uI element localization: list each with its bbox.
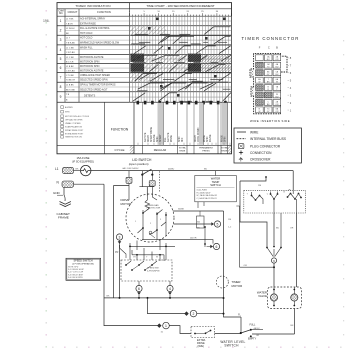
diamond connector before 1 (158, 324, 162, 328)
svg-text:WASH: WASH (194, 135, 197, 142)
circled terminal 5 (214, 221, 220, 227)
timer internal buss dotted box (244, 190, 305, 213)
table row lines (57, 25, 232, 27)
svg-text:2: 2 (60, 29, 62, 33)
connector arrow into 6 (207, 245, 214, 247)
drive motor overload zigzag (145, 196, 150, 210)
wire feed drop into timer x=293 (292, 171, 294, 191)
timer connector shell outline (250, 54, 287, 114)
svg-text:SPEED SWITCH: SPEED SWITCH (73, 260, 92, 263)
drive motor bottom leads (137, 239, 160, 250)
table header TIMER INFORMATION / TIME CHART (57, 8, 232, 10)
svg-text:WASH FILL: WASH FILL (80, 46, 93, 49)
svg-text:(open position): (open position) (129, 162, 149, 166)
svg-text:SPIN & TIMER MOTOR BYPASS: SPIN & TIMER MOTOR BYPASS (80, 84, 116, 87)
timer motor dashed circle (216, 276, 228, 288)
svg-text:mode-P/AGI: mode-P/AGI (197, 188, 208, 191)
svg-text:EXTRA RINSE PORT: EXTRA RINSE PORT (65, 132, 84, 135)
wire from 3 diagonal jog (120, 245, 127, 258)
legend crossover symbol (239, 157, 243, 161)
svg-text:C T4 BK: C T4 BK (66, 75, 74, 77)
legend wire symbol (237, 131, 246, 133)
plug connector L1 (63, 167, 74, 173)
wire motor right horizontal 3A (173, 210, 224, 212)
circled terminal 2 (190, 310, 197, 317)
svg-text:(IF SO EQUIPPED): (IF SO EQUIPPED) (72, 160, 94, 163)
svg-text:L1 W BU: L1 W BU (66, 28, 75, 30)
svg-text:C B T-BU: C B T-BU (66, 52, 75, 54)
wire from 1 to extra rinse switch (169, 326, 191, 334)
function section dividers (104, 102, 106, 154)
speed switch info box (66, 258, 101, 280)
chart dark cam blocks (130, 54, 144, 62)
timer motor contact cluster (266, 247, 268, 249)
table header row cam no circuit function (57, 15, 232, 17)
wire L1 to fuse (74, 170, 81, 172)
timer connector pin cells (256, 55, 264, 61)
wire connector to water valve (273, 263, 275, 287)
svg-text:SPIN: SPIN (225, 136, 227, 142)
svg-text:HOT COLD: HOT COLD (80, 37, 93, 40)
svg-text:CYCLE: CYCLE (114, 148, 124, 152)
circled terminal 6 (213, 243, 219, 249)
svg-text:REGULAR: REGULAR (154, 148, 167, 152)
svg-text:SPIN: SPIN (65, 112, 70, 114)
svg-text:WATER: WATER (211, 176, 220, 180)
connector arrow into 5 (211, 223, 214, 225)
svg-text:RINSE: RINSE (179, 150, 186, 152)
svg-text:PLUG CONNECTOR: PLUG CONNECTOR (250, 145, 281, 149)
svg-text:CONNECTION: CONNECTION (250, 151, 272, 155)
ground symbol cabinet frame (64, 188, 65, 202)
svg-text:W: W (258, 82, 260, 84)
connector arrow below 3 (118, 240, 120, 245)
wire N to left vertical (74, 183, 104, 185)
svg-text:BU: BU (276, 228, 279, 230)
connector arrow below 4 (169, 292, 171, 296)
svg-text:TIMER CONNECTOR: TIMER CONNECTOR (242, 36, 300, 41)
svg-text:C B T-BU: C B T-BU (66, 70, 75, 72)
svg-text:GND: GND (53, 191, 61, 195)
svg-text:196.: 196. (43, 19, 50, 23)
cycle row cells (133, 145, 135, 154)
svg-text:C: C (268, 46, 270, 50)
svg-text:WIRE INSERTION SIDE: WIRE INSERTION SIDE (250, 119, 290, 123)
svg-text:(2 POSN OPERATION): (2 POSN OPERATION) (72, 262, 94, 265)
svg-text:SPRAY RINSE PORT: SPRAY RINSE PORT (65, 129, 84, 132)
svg-text:TIME CHART - 180 SECONDS PER I: TIME CHART - 180 SECONDS PER INCREMENT (146, 4, 214, 8)
svg-text:EMPTY: EMPTY (248, 337, 257, 340)
svg-text:OR: OR (256, 335, 260, 337)
svg-text:W | 2A-BU 6A-W 8A-OR: W | 2A-BU 6A-W 8A-OR (197, 194, 218, 197)
wire start relay vertical (204, 227, 206, 247)
chart emphasized row boundary bars (131, 34, 231, 36)
svg-text:4A BU: 4A BU (168, 167, 175, 170)
svg-text:4: 4 (169, 287, 171, 291)
wire lid switch left drop with connector 4A (128, 171, 130, 177)
legend box (234, 128, 301, 163)
svg-text:BU: BU (204, 168, 207, 170)
svg-text:W: W (276, 82, 278, 84)
svg-text:2-POS/SPIN: 2-POS/SPIN (147, 271, 160, 273)
wire motor aux horizontal lower (130, 245, 175, 247)
svg-text:MOTOR/ON SPIN: MOTOR/ON SPIN (80, 65, 100, 68)
svg-text:PRESS: PRESS (202, 151, 210, 153)
svg-text:HOT COLD: HOT COLD (80, 32, 93, 35)
wire timer motor vertical x=223.5 (224, 211, 242, 317)
water level switch pivot (240, 332, 242, 334)
function section full-height dividers (133, 102, 135, 145)
chart stray cam marks (156, 18, 159, 21)
svg-text:FRAME: FRAME (58, 215, 69, 219)
svg-text:W: W (258, 111, 260, 113)
svg-text:DETENTS: DETENTS (84, 95, 96, 98)
svg-text:L1 T: L1 T (66, 38, 71, 40)
plug connector N (62, 181, 74, 187)
svg-text:WASH: WASH (147, 135, 150, 142)
svg-text:WARM/COLD WASH SPEED SLOW: WARM/COLD WASH SPEED SLOW (80, 41, 120, 44)
legend connection symbol (239, 150, 243, 154)
timer connector left tab hatch (250, 69, 253, 76)
wire full line to valve vertical (251, 329, 263, 331)
fuse F1 (81, 165, 91, 175)
wire corner OR branch (236, 206, 274, 267)
extra rinse switch dashed box (191, 327, 215, 338)
svg-text:CROSSOVER: CROSSOVER (250, 157, 271, 161)
svg-text:SPIN: SPIN (157, 136, 159, 142)
chart time scale ticks (129, 13, 131, 16)
drive motor internal wires (152, 186, 157, 200)
chart diagonal cam transition strokes (135, 33, 148, 35)
water valve dashed box (268, 287, 302, 309)
detent black ticks (137, 101, 140, 105)
wire main feed L1 y=170.6 (91, 170, 293, 172)
svg-text:MOTOR: MOTOR (121, 202, 132, 206)
svg-text:1M: 1M (228, 219, 231, 221)
water valve solenoid left (270, 294, 277, 301)
stub wire to water temp switch (215, 171, 217, 176)
svg-text:15A FUSE: 15A FUSE (76, 156, 89, 160)
svg-text:MOTOR RUN- ALL CYCLES: MOTOR RUN- ALL CYCLES (65, 115, 90, 118)
table column dividers (64, 9, 66, 103)
svg-text:RINSE: RINSE (171, 135, 173, 142)
svg-text:4: 4 (60, 48, 62, 52)
svg-text:SPEED SW: SPEED SW (147, 268, 159, 270)
svg-text:3: 3 (60, 38, 62, 42)
svg-text:OR: OR (290, 228, 294, 230)
svg-text:SPIN: SPIN (179, 136, 181, 142)
svg-text:T B R-BK: T B R-BK (66, 42, 75, 44)
svg-text:MOTOR: MOTOR (232, 284, 243, 288)
svg-text:L1 C BK: L1 C BK (66, 47, 74, 49)
svg-text:VALVE: VALVE (258, 294, 267, 298)
svg-text:NO.: NO. (59, 12, 64, 15)
svg-text:PERMANENT: PERMANENT (199, 147, 213, 150)
svg-text:8: 8 (60, 85, 62, 89)
page border dots (46, 10, 47, 12)
svg-text:WIRE: WIRE (250, 130, 258, 134)
svg-text:AGI-INTERNAL SPRAY: AGI-INTERNAL SPRAY (80, 18, 106, 21)
svg-text:B6 T4 BK: B6 T4 BK (66, 89, 75, 91)
svg-text:9: 9 (60, 95, 62, 99)
svg-text:EXTRA RINSE: EXTRA RINSE (80, 22, 96, 25)
wire neutral left vertical run (104, 184, 158, 325)
circled terminal 3 (116, 234, 122, 240)
wire water level to water valve bottom (252, 333, 295, 335)
svg-text:SPRAY: SPRAY (159, 134, 162, 142)
wire motor aux horizontal 2A OR (142, 240, 213, 244)
wire extra rinse to water level switch (215, 333, 241, 335)
lid switch arm (142, 169, 151, 174)
svg-text:(W/E): (W/E) (198, 345, 205, 348)
timer internal contacts group C (287, 196, 289, 198)
svg-text:1M: 1M (258, 185, 261, 187)
drive motor M1 dashed circle (126, 194, 174, 242)
console boundary solid right (240, 177, 267, 247)
wires motor leads into speed switch (137, 255, 160, 261)
symbol key list (61, 106, 64, 109)
svg-text:UNBAL LT SPEED: UNBAL LT SPEED (65, 122, 81, 125)
wire water valve right down (294, 309, 296, 335)
legend plug connector symbol (238, 144, 244, 149)
svg-text:OFF-BAL SW OPER: OFF-BAL SW OPER (65, 119, 83, 122)
svg-text:4A L1-BK 1A BU: 4A L1-BK 1A BU (122, 167, 138, 170)
svg-text:FUNCTION: FUNCTION (97, 10, 111, 14)
svg-text:H | 2A-BU 6A-W: H | 2A-BU 6A-W (197, 191, 211, 194)
svg-text:FUNCTION: FUNCTION (111, 128, 129, 132)
svg-text:RINSE: RINSE (222, 135, 224, 142)
svg-text:7: 7 (60, 76, 62, 80)
svg-text:1: 1 (60, 19, 62, 23)
motor bottom lead drops (130, 243, 166, 260)
circled terminal 1 (163, 322, 170, 329)
svg-text:AGITATE: AGITATE (144, 132, 147, 142)
svg-text:T4 B6 GY: T4 B6 GY (66, 80, 76, 82)
svg-text:PAUSE: PAUSE (153, 134, 156, 142)
svg-text:6: 6 (216, 245, 218, 249)
svg-text:FILL: FILL (165, 137, 167, 142)
svg-text:UNBALANCE HIGH SPEED: UNBALANCE HIGH SPEED (80, 74, 110, 77)
plug connector below lid switch right (149, 181, 155, 187)
motor lead junction row (132, 250, 164, 261)
table frame timer-chart (57, 3, 232, 154)
svg-text:AGITATE: AGITATE (65, 106, 74, 109)
svg-text:L1 B BK: L1 B BK (66, 66, 74, 68)
svg-text:6: 6 (138, 287, 140, 291)
wire motor right 5A to start relay (174, 223, 212, 225)
wires timer to water valve (273, 213, 275, 246)
svg-text:RINSE: RINSE (204, 135, 206, 142)
svg-text:3: 3 (119, 235, 121, 239)
svg-text:SPIN: SPIN (207, 136, 209, 142)
circled connector above water valve (271, 258, 276, 263)
timer internal contacts group B (270, 193, 272, 195)
svg-text:COOL DOWN: COOL DOWN (198, 127, 200, 142)
svg-text:SELECTED SPEED AGIT: SELECTED SPEED AGIT (80, 88, 108, 91)
chart grid vertical lines (129, 16, 131, 102)
water valve solenoid right (291, 294, 298, 301)
svg-text:B: B (276, 46, 278, 50)
svg-text:S-4 / BU-W SPIN: S-4 / BU-W SPIN (68, 277, 83, 279)
wire from 3 down (119, 245, 121, 298)
svg-text:2: 2 (193, 312, 195, 316)
svg-text:L1 C BK: L1 C BK (66, 57, 74, 59)
svg-text:OFF: OFF (182, 137, 184, 142)
svg-text:AGITATE: AGITATE (167, 132, 170, 142)
svg-text:6: 6 (60, 66, 62, 70)
svg-text:SPRAY RINSE: SPRAY RINSE (150, 126, 153, 142)
chart shaded cam segments (130, 26, 166, 35)
svg-text:RINSE: RINSE (221, 150, 228, 152)
circled terminal 6 lower (136, 285, 142, 291)
svg-text:5: 5 (217, 222, 219, 226)
svg-text:EXTRA: EXTRA (179, 147, 186, 150)
svg-text:MOTOR/ON AGITATE: MOTOR/ON AGITATE (80, 69, 104, 72)
svg-text:W: W (156, 257, 158, 259)
svg-text:TIMER MOTOR ON: TIMER MOTOR ON (65, 137, 82, 139)
svg-text:SOAK/PRwASH ON: SOAK/PRwASH ON (65, 125, 83, 128)
svg-text:MOTOR/ON SPIN: MOTOR/ON SPIN (80, 60, 100, 63)
svg-text:SWITCH: SWITCH (224, 343, 239, 347)
svg-text:B C Y-R: B C Y-R (66, 61, 74, 63)
speed switch dashed box (121, 260, 172, 281)
console dashed boundary near lid switch (159, 171, 161, 192)
svg-text:C | 6A-W 8A-OR PB-GY: C | 6A-W 8A-OR PB-GY (197, 197, 218, 200)
circled terminal 4 (167, 285, 173, 291)
svg-text:OR: OR (244, 265, 248, 267)
svg-text:PR: PR (115, 251, 119, 254)
svg-text:FILL & AGITATE CONTROL: FILL & AGITATE CONTROL (80, 27, 110, 30)
wire bottom bus y=298 (104, 297, 224, 299)
water temp switch box (195, 176, 237, 202)
lid switch S1 contacts (141, 171, 143, 174)
svg-text:L1 B BK: L1 B BK (66, 85, 74, 87)
connector arrow below lower 6 (138, 292, 140, 296)
svg-text:EXTRA: EXTRA (221, 147, 228, 150)
diamond connector before 2 (185, 312, 189, 316)
svg-text:INTERNAL TIMER BUSS: INTERNAL TIMER BUSS (250, 137, 286, 141)
svg-text:TIMER INFORMATION: TIMER INFORMATION (75, 4, 110, 8)
drive motor start winding box (197, 216, 205, 228)
svg-text:PAUSE: PAUSE (209, 134, 212, 142)
svg-text:CIRCUIT: CIRCUIT (68, 11, 78, 14)
svg-text:S-3 / BK-GY AGIT: S-3 / BK-GY AGIT (68, 273, 84, 276)
lid switch body loop (139, 175, 153, 196)
drive motor extra contacts (149, 233, 151, 235)
wire FL corner down to pivot (240, 317, 242, 332)
svg-text:L1 T BK: L1 T BK (66, 19, 74, 21)
svg-text:SWITCH: SWITCH (210, 183, 221, 187)
svg-text:L1: L1 (55, 167, 59, 171)
svg-text:5: 5 (60, 57, 62, 61)
cycle column shaded bands (158, 103, 164, 145)
svg-text:3A BK: 3A BK (178, 208, 185, 211)
svg-text:SELECTED SPEED SPIN: SELECTED SPEED SPIN (80, 79, 108, 82)
timer internal contacts group A (251, 195, 253, 197)
function column bottom tick digits (137, 143, 139, 146)
svg-text:MOTOR/ON AGITATE: MOTOR/ON AGITATE (80, 56, 104, 59)
svg-text:1: 1 (165, 324, 167, 328)
legend internal timer buss symbol (237, 138, 247, 140)
speed switch contacts (125, 264, 127, 266)
svg-text:FULL: FULL (250, 324, 257, 327)
svg-text:T A OR: T A OR (66, 22, 73, 25)
svg-text:TEMP: TEMP (212, 180, 220, 184)
svg-text:BU: BU (197, 227, 200, 229)
wire console left solid branch (114, 186, 130, 299)
table sub-row lines (65, 20, 130, 22)
water temp switch bottom stubs (198, 202, 204, 208)
wire drop to terminal 2 line (148, 298, 187, 314)
svg-text:2A OR: 2A OR (190, 236, 197, 239)
